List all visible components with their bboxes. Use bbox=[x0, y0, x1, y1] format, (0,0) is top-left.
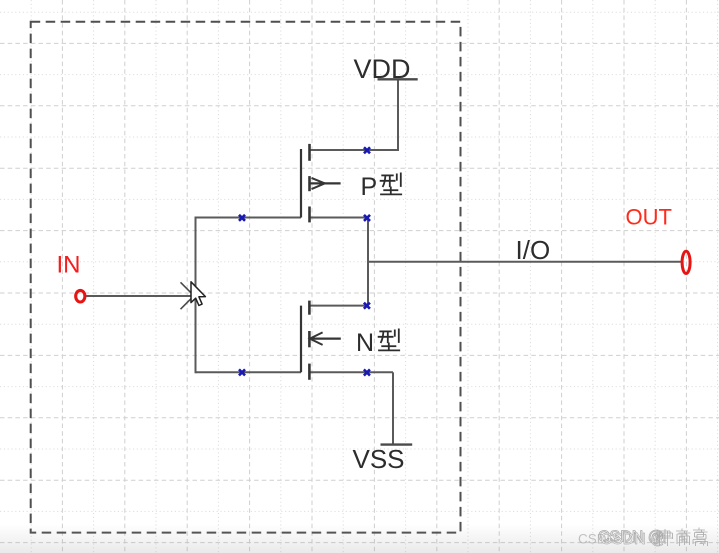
svg-text:OUT: OUT bbox=[626, 204, 672, 229]
svg-text:P: P bbox=[361, 173, 378, 201]
svg-text:IN: IN bbox=[57, 252, 81, 279]
svg-text:N: N bbox=[356, 329, 374, 357]
svg-text:VSS: VSS bbox=[353, 444, 405, 474]
svg-text:VDD: VDD bbox=[354, 54, 411, 84]
svg-text:I/O: I/O bbox=[516, 235, 551, 265]
